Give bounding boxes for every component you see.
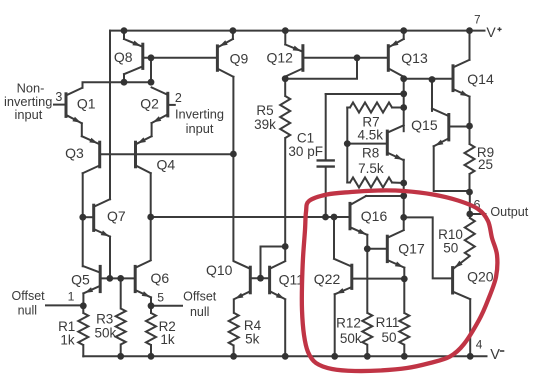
svg-text:Q10: Q10 <box>206 262 233 278</box>
node Q17 collector / Q20 base <box>400 214 407 221</box>
node Q11 emitter on V- <box>282 353 289 360</box>
svg-text:Q22: Q22 <box>314 271 341 287</box>
wire Q4 collector vertical <box>150 173 152 259</box>
wire R5 top stub <box>284 82 286 97</box>
wire R8 left stub <box>347 182 350 184</box>
svg-text:Q4: Q4 <box>156 157 175 173</box>
transistor Q1 <box>66 88 82 123</box>
svg-text:25: 25 <box>478 157 493 172</box>
node Q12 emitter on V+ <box>282 27 289 34</box>
node offset null pin5 <box>148 302 155 309</box>
node Vbe-multiplier base <box>344 140 351 147</box>
svg-text:Q14: Q14 <box>467 71 494 87</box>
svg-text:4.5k: 4.5k <box>358 128 384 143</box>
svg-text:Q1: Q1 <box>77 96 96 112</box>
wire Q8 collector stub <box>123 74 125 82</box>
svg-text:Q9: Q9 <box>230 50 249 66</box>
wire Q8 emitter stub <box>123 31 125 39</box>
svg-text:1k: 1k <box>60 332 75 347</box>
resistor R12 50k <box>362 313 372 345</box>
resistor R9 25 <box>465 144 475 174</box>
wire C1 top line to Q13 collector <box>326 93 404 95</box>
transistor Q5 <box>83 266 100 293</box>
wire R9 top stub <box>469 127 471 145</box>
wire R11 bottom stub <box>403 345 405 357</box>
transistor Q18 (Vbe multiplier) <box>387 125 403 160</box>
node Q4 collector / second stage line <box>147 214 154 221</box>
transistor Q22 <box>334 259 352 295</box>
capacitor C1 30pF <box>317 160 335 166</box>
svg-text:null: null <box>190 305 209 319</box>
wire Q20 base path <box>404 217 452 278</box>
svg-text:Offset: Offset <box>12 289 46 303</box>
resistor R11 50 <box>399 313 409 345</box>
wire R1 bottom stub <box>82 345 84 356</box>
wire R5 bottom to bias node <box>284 138 286 247</box>
node Q8 collector bus <box>121 79 128 86</box>
svg-text:Output: Output <box>490 205 528 219</box>
wire Q8 base-collector tie <box>150 58 152 82</box>
svg-text:Q8: Q8 <box>114 49 133 65</box>
node C1 top line <box>400 90 407 97</box>
node Q7 base / Q3 collector <box>79 214 86 221</box>
wire output node to R10 <box>469 192 471 218</box>
transistor Q2 <box>152 87 168 123</box>
node R7 right <box>400 104 407 111</box>
wire Q8-Q9 base line <box>143 57 218 59</box>
resistor R4 5k <box>229 313 239 346</box>
svg-text:Q3: Q3 <box>65 145 84 161</box>
transistor Q16 <box>350 196 367 235</box>
node Q12 base tie <box>354 54 361 61</box>
transistor Q17 <box>387 230 404 267</box>
wire Q1 emitter vertical <box>81 123 83 136</box>
wire Q5-Q6 base line <box>100 277 135 279</box>
node Q8 base tie <box>148 54 155 61</box>
transistor Q6 <box>135 260 151 297</box>
wire Q6 emitter vertical <box>150 297 152 305</box>
resistor R1 1k <box>78 313 88 345</box>
transistor Q15 <box>432 109 449 147</box>
wire Q7 base lead <box>83 216 93 218</box>
wire R8 right stub <box>392 182 404 185</box>
node pin7 / Q14 collector on V+ <box>466 27 473 34</box>
wire Q15 emitter path <box>434 146 470 191</box>
svg-text:5k: 5k <box>245 332 260 347</box>
node Q22 emitter on V- <box>331 353 338 360</box>
svg-text:50: 50 <box>443 240 458 255</box>
wire R3 top stub <box>120 278 122 308</box>
svg-text:1k: 1k <box>160 332 175 347</box>
wire Q2 emitter vertical <box>151 123 153 136</box>
svg-text:Q20: Q20 <box>467 269 494 285</box>
wire pin5 lead <box>151 305 182 307</box>
node Q9 emitter on V+ <box>230 27 237 34</box>
transistor Q10 <box>234 261 251 299</box>
wire Q22 collector vertical <box>333 217 335 259</box>
resistor R8 7.5k <box>350 178 392 188</box>
resistor R7 4.5k <box>350 103 392 113</box>
wire Q5 emitter vertical <box>82 293 84 305</box>
transistor Q11 <box>270 261 286 299</box>
wire Q7 emitter vertical <box>109 237 111 279</box>
transistor Q4 <box>136 136 152 173</box>
node offset null pin1 <box>80 302 87 309</box>
svg-text:Q13: Q13 <box>401 50 428 66</box>
node Q16 collector <box>400 192 407 199</box>
svg-text:R5: R5 <box>256 103 273 118</box>
svg-text:50k: 50k <box>340 331 362 346</box>
node Q22 collector <box>331 214 338 221</box>
resistor R5 39k <box>280 96 290 138</box>
wire Q10-Q11 base to R5 link <box>261 247 286 279</box>
svg-text:2: 2 <box>175 91 182 105</box>
red hand-drawn loop highlighting class-B output stage <box>302 190 498 371</box>
svg-text:7.5k: 7.5k <box>358 161 384 176</box>
wire Q3 collector vertical <box>82 173 84 266</box>
svg-text:50k: 50k <box>95 325 117 340</box>
wire V- rail <box>83 355 486 357</box>
node Q8 emitter on V+ <box>121 27 128 34</box>
wire Q14 base line <box>404 78 453 80</box>
wire Q12 emitter stub <box>284 31 286 45</box>
wire R2 bottom stub <box>150 345 152 356</box>
node Q2 collector bus <box>148 79 155 86</box>
svg-text:1: 1 <box>68 289 75 303</box>
wire Q16 emitter to Q17 base to R12 <box>366 235 368 313</box>
wire Q3-Q4 base line to Q9 collector <box>100 153 234 155</box>
wire pin2 lead <box>169 104 175 106</box>
node Q14 emitter / Q15 base / R9 top <box>466 123 473 130</box>
wire R7 right stub <box>392 107 404 109</box>
wire Q9 emitter stub <box>232 31 234 39</box>
transistor Q12 <box>285 45 303 77</box>
node Q17 emitter / Q22 base / R11 top <box>401 276 408 283</box>
wire R7-R8 left leg <box>346 108 348 183</box>
node Q7 emitter / Q5-Q6 base <box>106 275 113 282</box>
svg-text:R12: R12 <box>336 316 361 331</box>
wire Q15 collector vertical <box>431 80 433 111</box>
node Q17 base / Q16 emitter / R12 top <box>364 245 371 252</box>
wire Q14 collector vertical <box>469 31 471 60</box>
resistor R2 1k <box>146 313 156 345</box>
node R9 bottom / Q15 emitter <box>466 189 473 196</box>
wire R2 top stub <box>150 306 152 313</box>
node R12 bottom on V- <box>364 353 371 360</box>
wire Q9 collector down to Q10 <box>232 77 234 261</box>
svg-text:R3: R3 <box>96 311 113 326</box>
svg-text:5: 5 <box>157 291 164 305</box>
node R3 top <box>117 275 124 282</box>
svg-text:50: 50 <box>381 330 396 345</box>
svg-text:R8: R8 <box>362 145 379 160</box>
svg-text:3: 3 <box>55 90 62 104</box>
svg-text:V: V <box>490 347 500 363</box>
wire Q7 collector vertical to V+ <box>109 31 111 200</box>
wire Q18 base lead <box>347 143 386 145</box>
wire R1 top stub <box>82 306 84 313</box>
wire input-pair collector bus y=82 <box>83 82 152 88</box>
wire pin3 lead <box>54 104 65 106</box>
wire R9 bottom stub <box>469 174 471 192</box>
wire Q12 base-collector tie <box>285 58 357 79</box>
wire Q16 collector line <box>366 195 404 197</box>
svg-text:39k: 39k <box>254 117 276 132</box>
svg-text:Q17: Q17 <box>398 240 425 256</box>
svg-text:30 pF: 30 pF <box>288 144 323 159</box>
wire Q22 base line <box>353 278 404 280</box>
wire C1 top vertical <box>325 94 327 160</box>
node Q12 collector / R5 top <box>282 75 289 82</box>
node R11 bottom on V- <box>401 353 408 360</box>
wire Q18 emitter / net-X vertical <box>403 160 405 230</box>
svg-text:Offset: Offset <box>183 289 217 303</box>
svg-text:input: input <box>15 107 43 122</box>
wire Q22 emitter vertical <box>334 294 336 356</box>
wire Q17 base lead <box>367 248 386 250</box>
resistor R3 50k <box>116 309 126 345</box>
svg-text:Q7: Q7 <box>107 208 126 224</box>
node R5 bottom / Q11 collector <box>282 243 289 250</box>
wire Q12-Q13 base line <box>303 57 388 59</box>
transistor Q20 <box>453 256 471 299</box>
svg-text:null: null <box>18 304 37 318</box>
svg-text:Q6: Q6 <box>150 270 169 286</box>
wire R3 bottom stub <box>120 345 122 357</box>
node Q3-Q4 base / Q9-Q10 collectors <box>230 151 237 158</box>
svg-text:Q12: Q12 <box>266 50 293 66</box>
wire Q10 emitter to R4 <box>233 300 235 313</box>
svg-text:Q5: Q5 <box>71 272 90 288</box>
node Q10-Q11 base <box>257 275 264 282</box>
node R4 bottom on V- <box>230 353 237 360</box>
wire R12 bottom stub <box>366 345 368 357</box>
svg-text:Q16: Q16 <box>361 208 388 224</box>
wire Q17 emitter to R11 <box>403 268 405 313</box>
svg-text:Inverting: Inverting <box>175 107 224 122</box>
node R2 bottom on V- <box>148 353 155 360</box>
transistor Q9 <box>217 39 233 77</box>
wire C1 bottom vertical <box>325 167 327 217</box>
wire Q10-Q11 base line <box>250 277 269 279</box>
node Q13 emitter on V+ <box>400 27 407 34</box>
svg-text:V: V <box>486 24 496 40</box>
wire Q15 base lead <box>450 126 470 128</box>
svg-text:Q15: Q15 <box>411 117 438 133</box>
wire V+ rail <box>110 30 485 32</box>
transistor Q3 <box>82 136 100 173</box>
transistor Q8 <box>124 39 143 74</box>
wire Q11 emitter vertical <box>284 300 286 357</box>
wire Q13 collector vertical <box>403 77 405 131</box>
node R8 right <box>400 180 407 187</box>
transistor Q13 <box>388 39 403 77</box>
svg-text:input: input <box>186 121 214 136</box>
wire second-stage input line y=217 <box>151 216 350 218</box>
node C1 bottom <box>322 214 329 221</box>
wire Q20 collector vertical <box>469 299 471 356</box>
svg-text:4: 4 <box>476 338 483 352</box>
node Q13 collector / Q14 base <box>400 75 407 82</box>
node pin4 / Q20 collector on V- <box>467 353 474 360</box>
wire R7 left stub <box>347 107 350 109</box>
svg-text:7: 7 <box>474 14 480 26</box>
wire output lead pin6 <box>470 213 486 215</box>
svg-text:Q2: Q2 <box>140 96 159 112</box>
resistor R10 50 <box>465 218 475 256</box>
wire R4 bottom stub <box>233 346 235 357</box>
transistor Q7 <box>94 199 110 236</box>
transistor Q14 <box>453 60 470 97</box>
wire pin1 lead <box>46 304 83 306</box>
wire Q13 emitter stub <box>403 31 405 39</box>
wire Q11 collector vertical <box>284 247 286 261</box>
node R3 bottom on V- <box>117 353 124 360</box>
svg-text:R11: R11 <box>376 315 400 330</box>
wire Q14 emitter vertical <box>469 97 471 127</box>
node output pin6 <box>466 211 473 218</box>
node Q14 base / Q15 collector <box>429 76 436 83</box>
